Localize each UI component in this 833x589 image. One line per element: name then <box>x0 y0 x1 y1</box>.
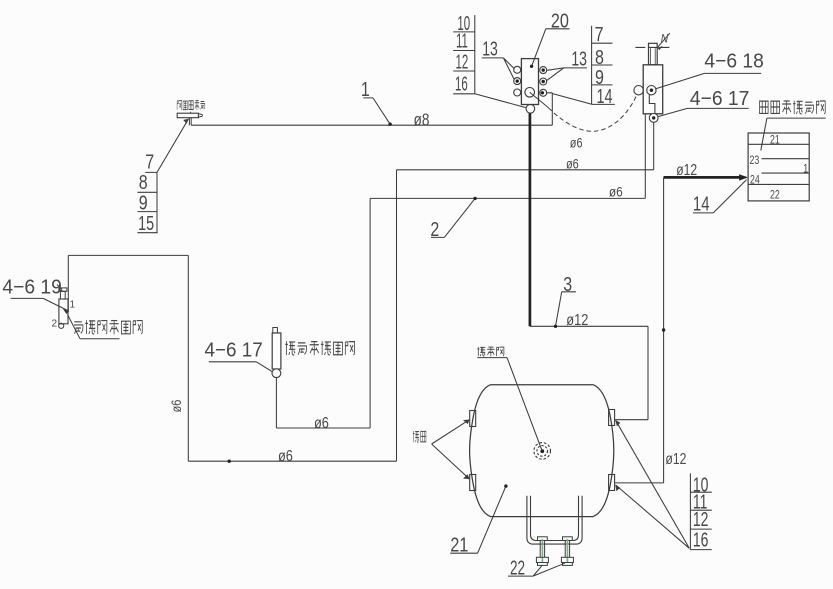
svg-text:16: 16 <box>693 528 709 551</box>
svg-text:1: 1 <box>803 163 808 176</box>
svg-text:22: 22 <box>770 188 780 202</box>
svg-text:21: 21 <box>770 133 780 147</box>
svg-text:4−6 17: 4−6 17 <box>690 87 749 110</box>
svg-text:9: 9 <box>139 192 148 214</box>
svg-text:2: 2 <box>52 319 58 330</box>
svg-text:3: 3 <box>563 273 572 295</box>
svg-text:ø6: ø6 <box>566 156 579 172</box>
svg-text:20: 20 <box>551 10 569 32</box>
svg-text:ø6: ø6 <box>314 415 329 433</box>
svg-text:ø12: ø12 <box>665 450 686 468</box>
svg-text:14: 14 <box>693 192 710 215</box>
svg-text:13: 13 <box>482 37 498 60</box>
svg-text:8: 8 <box>139 171 148 193</box>
svg-text:24: 24 <box>750 173 760 187</box>
svg-text:14: 14 <box>597 84 613 107</box>
svg-text:1: 1 <box>361 78 370 100</box>
svg-text:7: 7 <box>145 151 154 173</box>
svg-text:ø12: ø12 <box>566 312 588 330</box>
svg-text:12: 12 <box>456 51 469 73</box>
svg-text:23: 23 <box>750 154 760 168</box>
svg-text:15: 15 <box>138 211 154 234</box>
svg-text:ø6: ø6 <box>169 400 185 413</box>
svg-text:11: 11 <box>456 31 468 53</box>
svg-text:16: 16 <box>455 74 468 96</box>
svg-text:7: 7 <box>595 23 604 45</box>
svg-text:ø6: ø6 <box>278 448 293 466</box>
svg-text:1: 1 <box>70 300 76 311</box>
svg-text:N: N <box>661 33 669 46</box>
svg-text:4−6 17: 4−6 17 <box>205 339 263 362</box>
svg-text:13: 13 <box>571 47 587 70</box>
svg-text:4−6 18: 4−6 18 <box>704 50 763 73</box>
svg-text:21: 21 <box>450 533 468 556</box>
svg-text:ø8: ø8 <box>414 111 430 130</box>
svg-text:2: 2 <box>430 218 439 240</box>
svg-text:22: 22 <box>510 557 525 579</box>
svg-text:ø6: ø6 <box>609 183 623 199</box>
svg-text:4−6 19: 4−6 19 <box>2 276 61 299</box>
svg-text:ø6: ø6 <box>570 135 583 151</box>
svg-text:ø12: ø12 <box>676 161 697 179</box>
svg-text:8: 8 <box>595 46 604 68</box>
